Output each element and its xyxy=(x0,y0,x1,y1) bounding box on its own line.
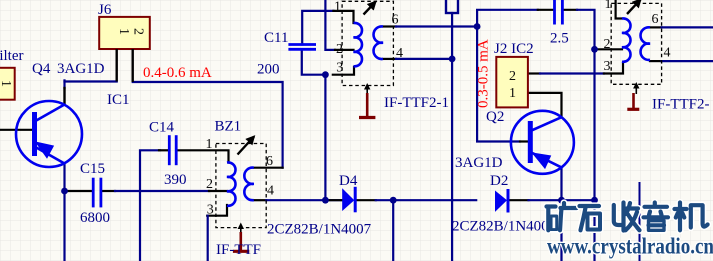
svg-text:IF-TTF2-: IF-TTF2- xyxy=(652,97,710,113)
wire Q4 collector riser xyxy=(63,80,65,88)
diode D2 xyxy=(495,189,508,213)
svg-text:0.4-0.6 mA: 0.4-0.6 mA xyxy=(143,65,212,81)
capacitor C11 xyxy=(288,45,316,50)
wire T2 pin3 stub xyxy=(333,67,354,75)
wire C15 right to BZ1 pin2 xyxy=(102,190,115,192)
svg-text:2: 2 xyxy=(131,28,146,35)
svg-text:3: 3 xyxy=(604,59,611,74)
wire riser junction down to Q2 base xyxy=(477,27,520,142)
transformer BZ1 tuning arrow xyxy=(238,137,255,155)
transistor Q4 xyxy=(16,101,82,167)
svg-text:0.3-0.5 mA: 0.3-0.5 mA xyxy=(476,39,492,108)
svg-text:3: 3 xyxy=(207,203,214,218)
wire C11 bottom to junction xyxy=(302,49,326,74)
svg-text:4: 4 xyxy=(267,184,274,199)
node T2 pin6 / cap riser xyxy=(474,23,481,30)
watermark char yin xyxy=(644,203,669,231)
wire T2 pin6 stub xyxy=(383,25,396,27)
node bottom wire / T3 drop xyxy=(591,197,598,204)
svg-text:www.crystalradio.cn: www.crystalradio.cn xyxy=(547,234,713,259)
wire BZ1 pin3 down to bottom xyxy=(207,216,209,261)
wire T2 pin1 stub xyxy=(333,11,353,23)
wire C14 right to BZ1 pin1 xyxy=(176,150,228,162)
capacitor 2.5 xyxy=(555,0,563,25)
svg-text:2: 2 xyxy=(206,177,213,192)
wire T3 pin6 to right edge xyxy=(662,26,713,28)
wire Q4 emitter down to bottom xyxy=(63,164,65,261)
wire C14 left corner down to bottom xyxy=(140,150,160,261)
wire T3 pin4 to right edge xyxy=(662,60,713,62)
svg-text:J2 IC2: J2 IC2 xyxy=(494,41,534,57)
svg-text:IF-TTF: IF-TTF xyxy=(216,242,261,258)
wire stray vertical in watermark xyxy=(639,183,641,261)
transformer T2 secondary winding xyxy=(374,26,383,59)
wire J6 pin2 to BZ1 pin6 xyxy=(133,82,283,168)
transformer T2 primary winding xyxy=(354,23,363,66)
wire BZ1 pin2 stub xyxy=(209,190,227,192)
wire T3 pin1 from top xyxy=(616,0,622,19)
wire D4 cathode to D2 anode xyxy=(356,199,376,201)
transformer T3 dashed box xyxy=(611,3,661,84)
node cap 2.5 drop / T3 pin2 xyxy=(591,46,598,53)
wire BZ1 pin3 stub xyxy=(207,205,227,216)
transformer T2 tuning arrow xyxy=(364,2,376,15)
transformer T3 shield ground xyxy=(627,82,639,109)
svg-text:Q4: Q4 xyxy=(32,61,51,77)
wire T3 pin6 stub xyxy=(650,26,662,28)
node drop meets D4 wire xyxy=(322,197,329,204)
wire BZ1 pin4 to D4 anode xyxy=(254,199,266,201)
wire J6 pin1 to Q4 collector xyxy=(65,80,117,82)
transformer T3 tuning arrow xyxy=(627,0,641,14)
wire Q2 base stub xyxy=(520,140,529,142)
wire cap 2.5 left stub xyxy=(538,9,553,11)
svg-text:6: 6 xyxy=(392,13,399,28)
svg-text:D2: D2 xyxy=(490,173,508,189)
svg-text:C11: C11 xyxy=(264,30,288,46)
wire C11 top riser xyxy=(302,11,333,45)
svg-text:BZ1: BZ1 xyxy=(215,119,242,135)
wire T2 pin4 to power drop junction xyxy=(396,58,452,60)
node T2 pin4 / power drop xyxy=(449,56,456,63)
wire D2 cathode to Q2 emitter junction xyxy=(509,199,529,201)
diode D4 xyxy=(342,187,355,213)
svg-text:4: 4 xyxy=(396,46,403,61)
svg-text:6: 6 xyxy=(652,12,659,27)
svg-text:2CZ82B/1N4007: 2CZ82B/1N4007 xyxy=(452,219,557,235)
svg-text:C14: C14 xyxy=(149,120,175,136)
wire C15 left xyxy=(65,190,93,192)
svg-text:3AG1D: 3AG1D xyxy=(455,155,503,171)
transistor Q2 xyxy=(511,111,574,174)
connector J2 xyxy=(496,57,528,108)
wire power drop xyxy=(451,13,453,59)
watermark char shi xyxy=(580,206,601,230)
node Q4 emitter / C15 xyxy=(61,188,68,195)
transformer BZ1 dashed box xyxy=(216,144,266,228)
transformer T3 primary winding xyxy=(622,18,631,61)
svg-text:IC1: IC1 xyxy=(107,92,130,108)
transformer BZ1 secondary winding xyxy=(244,168,253,201)
svg-text:2: 2 xyxy=(509,69,516,84)
wire power drop continues down xyxy=(451,59,453,261)
svg-text:3AG1D: 3AG1D xyxy=(57,61,105,77)
wire T3 pin4 stub xyxy=(650,60,662,62)
wire riser junction up and right to cap 2.5 xyxy=(477,10,538,27)
svg-text:Filter: Filter xyxy=(0,48,24,64)
node C11 bottom / T2 pin3 / drop xyxy=(322,71,329,78)
svg-text:IF-TTF2-1: IF-TTF2-1 xyxy=(384,95,449,111)
transformer BZ1 shield ground xyxy=(233,223,249,252)
svg-text:2.5: 2.5 xyxy=(550,31,569,47)
connector J6 xyxy=(99,17,150,82)
wire J2 pin1 to Q2 collector xyxy=(528,93,562,117)
svg-text:1: 1 xyxy=(116,28,131,35)
watermark char shou xyxy=(614,203,640,231)
transformer BZ1 primary winding xyxy=(227,162,236,205)
wire vertical at D4 junction down xyxy=(392,200,394,261)
node Q2 emitter / D2 wire xyxy=(558,197,565,204)
svg-text:Q2: Q2 xyxy=(486,109,504,125)
svg-text:1: 1 xyxy=(0,80,13,87)
watermark char ji xyxy=(675,203,708,231)
wire J2 pin2 to T3 pin3 xyxy=(528,72,540,74)
wire T2 pin4 stub xyxy=(383,58,396,60)
svg-text:1: 1 xyxy=(206,137,213,152)
svg-text:D4: D4 xyxy=(339,173,358,189)
svg-text:2: 2 xyxy=(604,37,611,52)
watermark xyxy=(547,203,713,259)
svg-text:390: 390 xyxy=(164,172,187,188)
svg-text:1: 1 xyxy=(605,0,612,12)
transformer T2 dashed box xyxy=(342,1,393,85)
capacitor C15 xyxy=(93,178,101,208)
svg-text:2CZ82B/1N4007: 2CZ82B/1N4007 xyxy=(267,222,372,238)
svg-text:2: 2 xyxy=(336,42,343,57)
wire T2 pin6 to riser junction xyxy=(396,25,477,27)
wire T3 pin3 stub xyxy=(604,63,623,74)
wire BZ1 pin6 stub xyxy=(254,167,283,169)
svg-text:C15: C15 xyxy=(80,161,105,177)
svg-text:4: 4 xyxy=(664,46,671,61)
wire Q4 base from left edge xyxy=(0,129,33,131)
wire T2 pin2 stub xyxy=(335,49,354,51)
svg-text:1: 1 xyxy=(334,0,341,15)
transformer T3 secondary winding xyxy=(641,27,650,60)
node D4 cathode branch xyxy=(390,197,397,204)
wire Q2 emitter down to bottom xyxy=(560,167,562,261)
svg-text:3: 3 xyxy=(336,61,343,76)
wire T3 pin2 drop continues to bottom xyxy=(593,49,595,261)
svg-text:200: 200 xyxy=(257,62,280,78)
transformer T2 shield ground xyxy=(359,83,375,118)
svg-text:6800: 6800 xyxy=(80,210,110,226)
watermark char kuang xyxy=(547,203,577,230)
power port square xyxy=(446,0,458,13)
wire C11 junction to D4 junction vertical xyxy=(324,75,326,201)
svg-text:6: 6 xyxy=(266,154,273,169)
svg-text:J6: J6 xyxy=(98,2,112,18)
connector filter box xyxy=(0,68,15,100)
wire riser above T2 pin2 xyxy=(325,0,335,50)
svg-text:1: 1 xyxy=(509,86,516,101)
wire cap 2.5 right stub xyxy=(562,9,577,11)
capacitor C14 xyxy=(169,135,176,165)
wire cap 2.5 to T3 pin2 drop xyxy=(577,10,595,50)
wire T3 pin2 stub xyxy=(595,48,623,50)
